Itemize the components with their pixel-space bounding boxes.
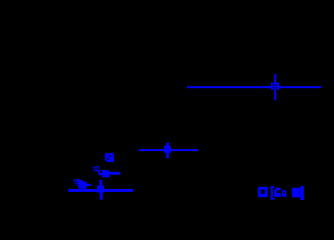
wire B1 drain stub right — [109, 172, 120, 175]
transistor B1 blob body — [98, 170, 109, 177]
via V1 contact square — [271, 83, 279, 90]
text T2 refdes scribble — [73, 179, 80, 186]
wire net1 top-right horizontal — [187, 86, 322, 88]
glyph square-outline — [258, 187, 268, 197]
glyph close bracket — [300, 186, 304, 200]
glyph filled square — [292, 188, 300, 198]
transistor Q1 body cross — [164, 143, 171, 158]
glyph C — [274, 188, 281, 197]
text T1 refdes scribble — [92, 166, 100, 172]
transistor B2 blob body — [77, 180, 86, 189]
wire via V1 bottom stub — [274, 90, 276, 101]
wire net2 middle horizontal — [139, 149, 198, 151]
transistor Q2 body cross — [97, 180, 104, 200]
glyph open bracket — [271, 186, 273, 199]
wire net3 bottom horizontal — [68, 189, 133, 192]
wire B2 stub right — [86, 184, 91, 186]
text T3 status label — [258, 186, 304, 200]
label S1 square glyph — [105, 153, 114, 162]
glyph o — [282, 190, 287, 196]
wire via V1 top stub — [274, 74, 276, 83]
via V1 cut holes — [273, 84, 277, 88]
